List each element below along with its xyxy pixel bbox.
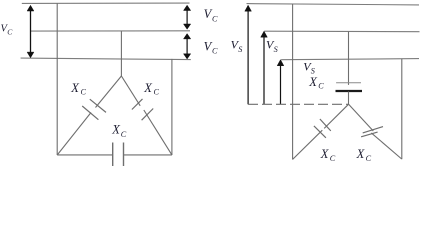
svg-text:S: S	[274, 45, 278, 54]
wire right delta right leg upper	[349, 104, 374, 131]
svg-text:C: C	[7, 28, 13, 37]
capacitor C5 top plate thin	[336, 82, 361, 84]
wire right vertical right box	[401, 59, 403, 159]
svg-text:X: X	[143, 81, 153, 95]
capacitor C7 plates right leg	[361, 127, 383, 137]
svg-text:X: X	[70, 81, 80, 95]
svg-text:C: C	[154, 88, 160, 97]
wire left delta left leg upper	[96, 76, 122, 108]
wire bus line 2 left	[31, 30, 190, 32]
wire bottom left segment	[57, 154, 112, 156]
svg-text:C: C	[81, 88, 87, 97]
capacitor C6 plates left leg	[314, 119, 331, 138]
svg-text:C: C	[318, 82, 324, 91]
capacitor C5 bottom plate thick	[336, 90, 363, 92]
svg-text:C: C	[121, 130, 127, 139]
wire bottom right segment	[124, 154, 172, 156]
wire stub to left delta apex	[120, 31, 122, 76]
wire left delta left leg lower	[57, 113, 91, 156]
arrow VC left double	[27, 5, 34, 58]
arrow dim upper between line1 and line2	[184, 5, 191, 29]
arrow dim lower between line2 and line3	[184, 34, 191, 59]
wire bus line 1 left	[22, 2, 190, 4]
wire right vertical left box	[171, 59, 173, 155]
wire left delta right leg lower	[144, 110, 172, 155]
wire right delta right leg lower	[371, 133, 401, 159]
svg-text:X: X	[320, 147, 330, 161]
wire left vertical	[56, 3, 58, 155]
svg-text:C: C	[330, 154, 336, 163]
capacitor C2 plates right leg	[132, 99, 153, 120]
wire top capacitor lower lead	[348, 92, 350, 105]
svg-text:S: S	[238, 45, 242, 54]
svg-text:C: C	[366, 154, 372, 163]
arrow VS short	[277, 60, 284, 105]
capacitor C1 plates left leg	[82, 99, 106, 120]
wire top capacitor upper lead	[348, 31, 350, 85]
wire dashed baseline	[248, 103, 349, 105]
wire bus line 3 left	[21, 58, 191, 60]
svg-text:X: X	[111, 123, 121, 137]
svg-text:C: C	[212, 47, 218, 56]
wire bus line 3 right	[281, 59, 419, 60]
wire bus line 1 right	[247, 4, 420, 5]
wire left delta right leg upper	[121, 76, 140, 106]
svg-text:X: X	[356, 147, 366, 161]
wire right delta left leg lower	[293, 130, 323, 159]
arrow VS tall	[245, 5, 252, 104]
wire bus line 2 right	[264, 30, 419, 33]
svg-text:C: C	[212, 14, 218, 23]
svg-text:X: X	[308, 75, 318, 89]
arrow VS middle	[261, 31, 268, 104]
wire right delta left leg upper	[324, 104, 348, 128]
wire left vertical right box	[292, 4, 294, 159]
capacitor C4 bottom plates	[113, 143, 124, 168]
